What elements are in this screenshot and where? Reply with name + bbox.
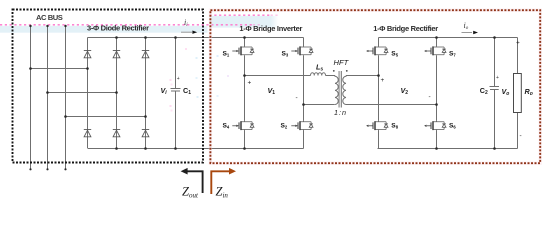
svg-text:S3: S3 bbox=[282, 50, 289, 57]
svg-text:S2: S2 bbox=[281, 122, 288, 129]
svg-text:+: + bbox=[381, 77, 385, 84]
svg-text:+: + bbox=[516, 40, 520, 47]
svg-text:S1: S1 bbox=[223, 50, 230, 57]
svg-text:+: + bbox=[496, 75, 499, 81]
svg-text:S7: S7 bbox=[449, 50, 456, 57]
svg-text:+: + bbox=[248, 80, 252, 87]
svg-text:+: + bbox=[177, 76, 180, 82]
svg-text:-: - bbox=[520, 133, 522, 140]
svg-text:1-Φ Bridge Inverter: 1-Φ Bridge Inverter bbox=[239, 24, 302, 33]
svg-text:1-Φ Bridge Rectifier: 1-Φ Bridge Rectifier bbox=[373, 24, 438, 33]
svg-text:S8: S8 bbox=[391, 122, 398, 129]
svg-text:S6: S6 bbox=[449, 122, 456, 129]
svg-text:-: - bbox=[296, 95, 298, 102]
svg-text:3-Φ Diode Rectifier: 3-Φ Diode Rectifier bbox=[87, 24, 149, 33]
svg-text:HFT: HFT bbox=[334, 58, 350, 67]
svg-text:1:n: 1:n bbox=[334, 108, 346, 117]
svg-text:S4: S4 bbox=[223, 122, 230, 129]
svg-text:S5: S5 bbox=[391, 50, 398, 57]
svg-text:-: - bbox=[429, 94, 431, 101]
svg-text:AC BUS: AC BUS bbox=[36, 13, 63, 22]
